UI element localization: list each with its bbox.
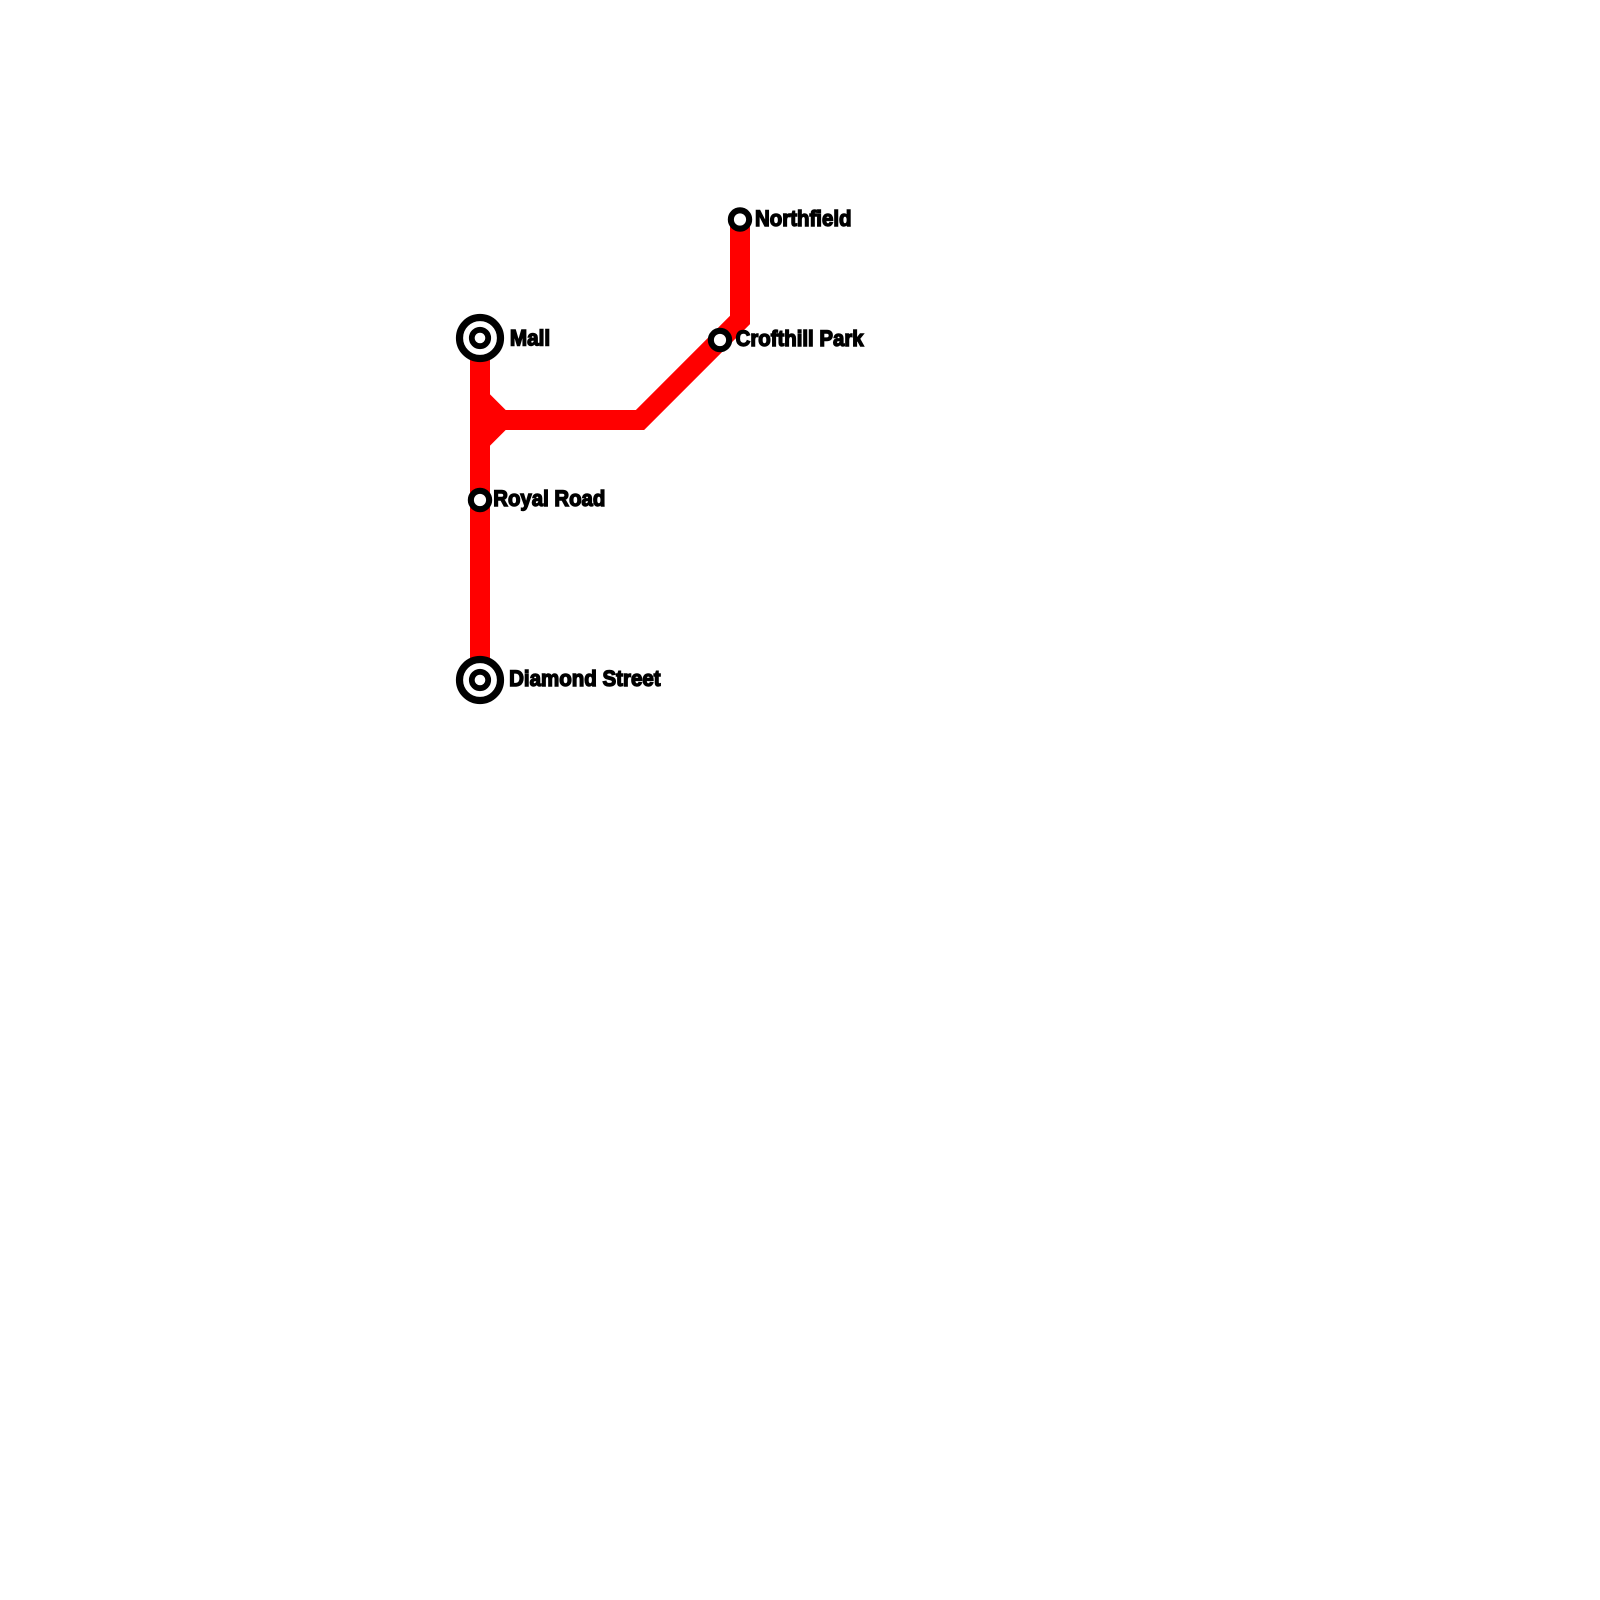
svg-text:Royal Road: Royal Road bbox=[493, 486, 605, 511]
station Diamond Street (interchange double circle) bbox=[460, 660, 501, 701]
station Northfield (circle) bbox=[731, 210, 749, 228]
station Royal Road (circle) bbox=[471, 491, 489, 509]
station Mall (interchange double circle) bbox=[460, 318, 501, 359]
junction flare upper stub bbox=[480, 399, 502, 421]
junction flare lower stub bbox=[480, 420, 502, 442]
svg-text:Mall: Mall bbox=[510, 326, 550, 351]
svg-text:Crofthill Park: Crofthill Park bbox=[736, 326, 865, 351]
svg-text:Diamond Street: Diamond Street bbox=[509, 666, 661, 691]
station Crofthill Park (circle) bbox=[711, 331, 729, 349]
red line: Mall - Royal Road - Diamond Street (vertical trunk) bbox=[470, 338, 490, 680]
svg-text:Northfield: Northfield bbox=[755, 206, 852, 231]
red line: Northfield - Crofthill Park - junction (branch) bbox=[502, 220, 741, 421]
